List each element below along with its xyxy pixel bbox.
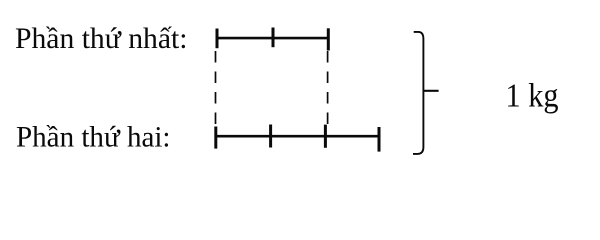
label: Phần thứ nhất [15, 23, 188, 55]
bar B2 tick 3 [324, 125, 327, 148]
brace [413, 32, 439, 154]
bar B1 line [216, 37, 330, 40]
bar B1 tick right [327, 28, 330, 50]
dashed connector left [215, 51, 217, 125]
bar B1 tick middle [272, 28, 275, 48]
bar B2 line [215, 135, 381, 138]
bar B2 tick 4 [378, 127, 381, 152]
bar B2 tick 1 [214, 127, 217, 149]
bar B1 tick left [216, 29, 219, 49]
bar B2 tick 2 [269, 125, 272, 148]
svg-text:1 kg: 1 kg [506, 78, 559, 115]
svg-text:Phần thứ hai:: Phần thứ hai: [16, 122, 171, 154]
label: 1 kg [506, 78, 559, 115]
dashed connector right [327, 51, 329, 125]
svg-text:Phần thứ nhất:: Phần thứ nhất: [15, 23, 188, 55]
label: Phần thứ hai [16, 122, 171, 154]
